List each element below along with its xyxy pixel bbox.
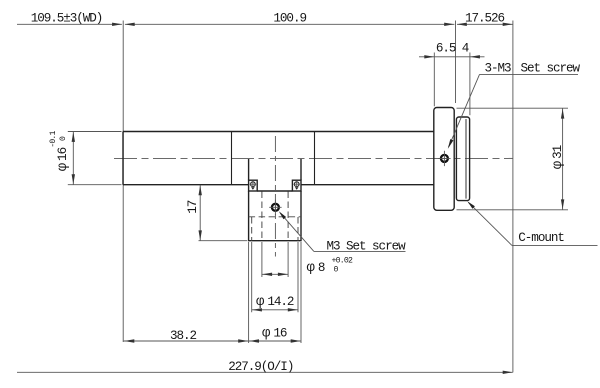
svg-text:φ16: φ16 [262,326,287,342]
lens barrel tube outline [123,132,434,185]
dimension phi8 +0.02/0 [262,242,353,277]
leader C-mount [467,201,597,245]
svg-text:4: 4 [462,41,469,55]
svg-text:3-M3Set screw: 3-M3Set screw [485,61,581,75]
flange set screw 3-M3 [438,151,450,166]
svg-text:φ31: φ31 [550,145,566,169]
C-mount ring [456,117,469,201]
dimension phi14.2 [252,242,298,312]
dimension phi16 bracket diameter [249,242,301,343]
clamp screw left [250,181,257,190]
dimension phi31 [457,108,569,210]
bracket neck edges [249,159,301,180]
svg-text:M3 Set screw: M3 Set screw [327,239,407,253]
extension line flange left face [433,53,435,107]
bracket set screw M3 [269,200,281,215]
leader 3-M3 Set screw [448,61,581,149]
flange disc phi31 [434,108,454,211]
leader M3 Set screw [279,211,406,253]
dimension 109.5±3(WD) working distance [17,12,122,26]
centerline bracket axis [274,136,276,257]
dimension 100.9 [125,12,455,26]
extension line thread end [469,53,471,116]
svg-text:109.5±3(WD): 109.5±3(WD) [31,12,103,26]
svg-text:100.9: 100.9 [273,12,306,26]
dimension 227.9(O/I) object to image [17,360,513,374]
svg-text:φ14.2: φ14.2 [256,294,294,310]
clamp screw right [293,181,300,190]
hidden counterbore bottom [249,216,301,218]
clamp screw notch right [292,180,301,191]
extension line lens front face [122,21,124,343]
svg-text:0: 0 [59,136,68,141]
svg-text:17.526: 17.526 [465,12,505,26]
tube section edge right [314,132,316,185]
svg-text:38.2: 38.2 [170,329,197,343]
svg-text:+0.020: +0.020 [332,257,353,275]
svg-text:17: 17 [186,200,200,214]
svg-text:227.9(O/I): 227.9(O/I) [228,360,293,374]
svg-text:φ8: φ8 [307,260,325,276]
dimension 17.526 flange focal distance [457,12,513,26]
extension line image plane [512,21,514,373]
svg-text:-0.1: -0.1 [49,130,58,147]
extension line flange face [455,21,457,104]
svg-text:C-mount: C-mount [518,231,564,245]
dimension 38.2 [124,329,249,343]
dimension 17 [186,185,247,241]
dimension phi16 tolerance 0/-0.1 [49,130,122,184]
clamp screw notch left [249,180,258,191]
bracket block body [249,191,301,241]
centerline main optical axis [114,157,513,159]
dimension 6.5 and 4 [419,41,485,58]
hidden bore phi14.2 [252,217,298,241]
hidden bore phi8 [262,192,288,241]
tube section edge left [231,132,233,185]
C-mount thread line [465,119,467,199]
svg-text:φ16: φ16 [55,147,71,171]
svg-text:6.5: 6.5 [436,41,456,55]
